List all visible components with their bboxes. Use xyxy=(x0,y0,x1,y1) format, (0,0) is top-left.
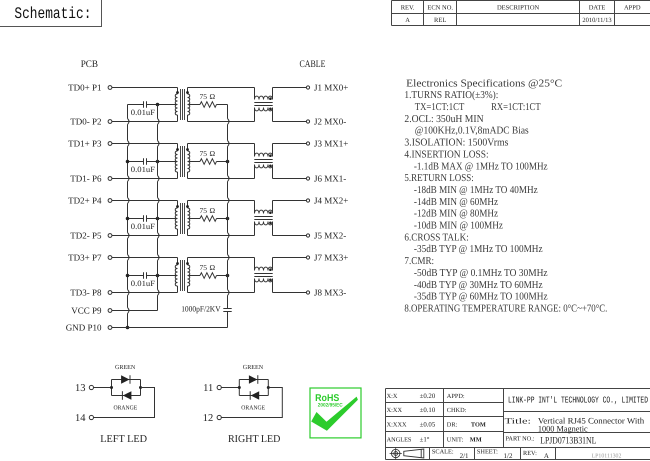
common-mode choke CM4 xyxy=(254,258,272,293)
wire T3 secondary top to choke xyxy=(188,200,255,202)
capacitor C5 1000pF/2KV xyxy=(181,305,232,328)
transformer T4 xyxy=(175,258,190,293)
svg-text:75: 75 xyxy=(200,263,208,272)
pin J3 MX1+ xyxy=(306,139,348,149)
svg-text:APPD: APPD xyxy=(624,5,641,12)
svg-text:REV.: REV. xyxy=(401,5,415,12)
svg-text:DESCRIPTION: DESCRIPTION xyxy=(497,5,540,12)
svg-text:13: 13 xyxy=(75,383,86,394)
svg-text:5.RETURN LOSS:: 5.RETURN LOSS: xyxy=(404,173,473,184)
revision table xyxy=(392,1,650,26)
svg-text:RX=1CT:1CT: RX=1CT:1CT xyxy=(491,102,541,113)
svg-text:LINK-PP INT'L TECHNOLOGY CO.,: LINK-PP INT'L TECHNOLOGY CO., LIMITED xyxy=(508,395,648,405)
pin J5 MX2- xyxy=(306,231,346,241)
node: GND bus / cap junction xyxy=(126,160,130,164)
svg-text:±1°: ±1° xyxy=(420,437,430,444)
wire LED pair to pin 12 xyxy=(221,388,282,418)
pin P2 TD0- xyxy=(70,117,112,127)
wire channel 3 PCB top wire xyxy=(112,257,178,259)
wire choke CM2 to J output top xyxy=(273,143,307,145)
common-mode choke CM3 xyxy=(254,201,272,236)
svg-text:TD2+ P4: TD2+ P4 xyxy=(68,196,102,206)
capacitor C4 0.01uF xyxy=(131,272,156,288)
svg-text:0.01uF: 0.01uF xyxy=(131,222,156,231)
wire R1 to termination rail xyxy=(217,104,228,106)
svg-text:-14dB MIN @ 60MHz: -14dB MIN @ 60MHz xyxy=(414,197,498,208)
wire channel 2 PCB bottom wire xyxy=(112,235,178,237)
svg-text:J3 MX1+: J3 MX1+ xyxy=(314,139,348,149)
electronics specifications text block xyxy=(404,78,607,314)
svg-text:REV:: REV: xyxy=(523,450,537,457)
svg-text:PART NO.:: PART NO.: xyxy=(506,435,535,442)
wire VCC P9 to VCC bus xyxy=(112,310,158,312)
svg-text:7.CMR:: 7.CMR: xyxy=(404,256,434,267)
svg-text:Ω: Ω xyxy=(210,263,216,272)
svg-text:J6 MX1-: J6 MX1- xyxy=(314,174,346,184)
svg-text:75: 75 xyxy=(200,92,208,101)
svg-text:TD0- P2: TD0- P2 xyxy=(70,117,101,127)
transformer T2 xyxy=(175,144,190,179)
wire choke CM3 to J output top xyxy=(273,200,307,202)
svg-text:-50dB TYP @ 0.1MHz TO 30MHz: -50dB TYP @ 0.1MHz TO 30MHz xyxy=(414,268,548,279)
wire pin 11 to LED pair xyxy=(221,387,239,389)
RoHS logo xyxy=(310,388,361,438)
svg-text:2010/11/13: 2010/11/13 xyxy=(582,17,611,24)
wire channel 2 cap to T3 center tap xyxy=(147,218,178,220)
svg-text:Schematic:: Schematic: xyxy=(14,5,91,23)
node: GND bus / cap junction xyxy=(126,217,130,221)
svg-text:TD1+ P3: TD1+ P3 xyxy=(68,139,102,149)
capacitor C2 0.01uF xyxy=(131,158,156,174)
wire channel 0 PCB bottom wire xyxy=(112,121,178,123)
LED green diode (LEFT LED) xyxy=(121,375,130,384)
transformer T1 xyxy=(175,88,190,122)
title block frame xyxy=(386,389,650,460)
wire LED pair to pin 14 xyxy=(94,388,155,418)
pin 13 xyxy=(75,383,94,394)
svg-text:PCB: PCB xyxy=(81,59,99,70)
svg-text:VCC P9: VCC P9 xyxy=(71,306,102,316)
svg-text:-40dB TYP @ 30MHz TO 60MHz: -40dB TYP @ 30MHz TO 60MHz xyxy=(414,280,543,291)
svg-text:1000pF/2KV: 1000pF/2KV xyxy=(181,305,221,314)
svg-text:@100KHz,0.1V,8mADC Bias: @100KHz,0.1V,8mADC Bias xyxy=(415,126,529,137)
svg-text:±0.05: ±0.05 xyxy=(420,421,436,428)
svg-text:-35dB TYP @ 1MHz TO 100MHz: -35dB TYP @ 1MHz TO 100MHz xyxy=(414,244,543,255)
svg-text:LP10111302: LP10111302 xyxy=(592,454,622,460)
wire channel 0 cap to T1 center tap xyxy=(147,104,178,106)
pin J4 MX2+ xyxy=(306,196,348,206)
wire channel 1 PCB top wire xyxy=(112,143,178,145)
pin J7 MX3+ xyxy=(306,253,348,263)
wire pin 13 to LED pair xyxy=(94,387,112,389)
wire channel 1 PCB bottom wire xyxy=(112,178,178,180)
svg-text:MM: MM xyxy=(470,437,482,444)
svg-text:±0.20: ±0.20 xyxy=(420,393,436,400)
svg-text:A: A xyxy=(405,17,410,24)
transformer T3 xyxy=(175,201,190,236)
pin P10 GND xyxy=(66,323,112,333)
svg-text:TD3- P8: TD3- P8 xyxy=(70,288,102,298)
wire R2 to termination rail xyxy=(217,161,228,163)
svg-text:J2 MX0-: J2 MX0- xyxy=(314,117,346,127)
svg-text:0.01uF: 0.01uF xyxy=(131,165,156,174)
pin P1 TD0+ xyxy=(68,83,112,93)
svg-text:75: 75 xyxy=(200,206,208,215)
resistor R4 75 ohm xyxy=(200,263,217,278)
common-mode choke CM2 xyxy=(254,144,272,179)
pin J2 MX0- xyxy=(306,117,346,127)
svg-text:UNIT:: UNIT: xyxy=(447,437,464,444)
svg-text:J8 MX3-: J8 MX3- xyxy=(314,288,346,298)
third angle projection symbol xyxy=(390,447,424,459)
svg-text:11: 11 xyxy=(203,383,213,394)
svg-text:-18dB MIN @ 1MHz TO 40MHz: -18dB MIN @ 1MHz TO 40MHz xyxy=(414,185,538,196)
wire T4 secondary bottom to choke xyxy=(188,292,255,294)
wire VCC bus (vertical, x=157) xyxy=(158,105,160,311)
LED pair frame (LEFT LED) xyxy=(110,380,142,396)
svg-text:2002/95/EC: 2002/95/EC xyxy=(318,403,343,409)
svg-text:DATE: DATE xyxy=(589,5,606,12)
pin 14 xyxy=(75,413,94,424)
pin P3 TD1+ xyxy=(68,139,112,149)
wire choke CM1 to J output top xyxy=(273,87,307,89)
revision table header row xyxy=(401,5,641,12)
capacitor C1 0.01uF xyxy=(131,101,156,117)
svg-text:LEFT LED: LEFT LED xyxy=(100,434,147,445)
svg-text:-12dB MIN @ 80MHz: -12dB MIN @ 80MHz xyxy=(414,209,498,220)
pin P5 TD2- xyxy=(70,231,112,241)
svg-text:X:XX: X:XX xyxy=(387,407,403,414)
svg-text:8.OPERATING TEMPERATURE RANGE:: 8.OPERATING TEMPERATURE RANGE: 0°C~+70°C… xyxy=(404,303,607,314)
svg-text:ANGLES: ANGLES xyxy=(387,437,412,444)
svg-text:Ω: Ω xyxy=(210,149,216,158)
wire channel 3 center-tap (GND bus to cap) xyxy=(128,275,144,277)
svg-text:J5 MX2-: J5 MX2- xyxy=(314,231,346,241)
svg-text:LPJD0713B31NL: LPJD0713B31NL xyxy=(540,436,596,447)
svg-text:ORANGE: ORANGE xyxy=(241,404,265,411)
wire choke CM1 to J output bottom xyxy=(273,121,307,123)
node: GND bus to GND P10 wire xyxy=(126,326,130,330)
common-mode choke CM1 xyxy=(254,88,272,122)
pin P7 TD3+ xyxy=(68,253,112,263)
svg-text:J1 MX0+: J1 MX0+ xyxy=(314,83,348,93)
svg-text:Electronics Specifications @25: Electronics Specifications @25°C xyxy=(406,78,562,89)
svg-text:SCALE:: SCALE: xyxy=(432,449,454,456)
wire T3 secondary bottom to choke xyxy=(188,235,255,237)
svg-text:CHKD:: CHKD: xyxy=(447,407,467,414)
svg-text:0.01uF: 0.01uF xyxy=(131,279,156,288)
svg-text:6.CROSS TALK:: 6.CROSS TALK: xyxy=(404,232,468,243)
wire T4 secondary top to choke xyxy=(188,257,255,259)
LED pair frame (RIGHT LED) xyxy=(238,380,270,396)
svg-text:SHEET:: SHEET: xyxy=(477,449,498,456)
node: T3 center tap / VCC bus junction xyxy=(156,217,160,221)
wire T2 secondary center tap to R2 xyxy=(188,161,201,163)
resistor R2 75 ohm xyxy=(200,149,217,164)
wire T2 secondary top to choke xyxy=(188,143,255,145)
resistor R3 75 ohm xyxy=(200,206,217,221)
Schematic: title box xyxy=(0,0,102,27)
pin 11 xyxy=(203,383,221,394)
pin P8 TD3- xyxy=(70,288,112,298)
svg-text:REL: REL xyxy=(434,17,446,24)
svg-text:X:XXX: X:XXX xyxy=(387,421,407,428)
svg-text:2/1: 2/1 xyxy=(460,452,469,460)
svg-text:TD2- P5: TD2- P5 xyxy=(70,231,102,241)
svg-text:-1.1dB MAX @ 1MHz TO 100MHz: -1.1dB MAX @ 1MHz TO 100MHz xyxy=(414,161,548,172)
pin J1 MX0+ xyxy=(306,83,348,93)
wire T2 secondary bottom to choke xyxy=(188,178,255,180)
pin P9 VCC xyxy=(71,306,112,316)
resistor R1 75 ohm xyxy=(200,92,217,107)
pin J6 MX1- xyxy=(306,174,346,184)
LED orange diode (RIGHT LED) xyxy=(250,391,259,400)
wire T3 secondary center tap to R3 xyxy=(188,218,201,220)
node: T4 center tap / VCC bus junction xyxy=(156,274,160,278)
wire channel 2 PCB top wire xyxy=(112,200,178,202)
svg-text:1000 Magnetic: 1000 Magnetic xyxy=(538,424,588,434)
svg-text:Ω: Ω xyxy=(210,92,216,101)
svg-text:TD3+ P7: TD3+ P7 xyxy=(68,253,102,263)
wire channel 3 cap to T4 center tap xyxy=(147,275,178,277)
wire choke CM4 to J output top xyxy=(273,257,307,259)
wire choke CM3 to J output bottom xyxy=(273,235,307,237)
wire channel 2 center-tap (GND bus to cap) xyxy=(128,218,144,220)
svg-text:4.INSERTION LOSS:: 4.INSERTION LOSS: xyxy=(404,149,488,160)
svg-text:ORANGE: ORANGE xyxy=(114,404,138,411)
svg-text:14: 14 xyxy=(75,413,86,424)
part number xyxy=(506,435,597,446)
capacitor C3 0.01uF xyxy=(131,215,156,231)
svg-text:1.TURNS RATIO(±3%):: 1.TURNS RATIO(±3%): xyxy=(404,90,498,101)
pin J8 MX3- xyxy=(306,288,346,298)
wire GND bus (vertical, x=128) xyxy=(128,105,130,328)
svg-text:1/2: 1/2 xyxy=(504,452,513,460)
svg-text:TX=1CT:1CT: TX=1CT:1CT xyxy=(415,102,465,113)
node: R2 / termination rail junction xyxy=(226,160,230,164)
svg-text:-35dB TYP @ 60MHz TO 100MHz: -35dB TYP @ 60MHz TO 100MHz xyxy=(414,292,548,303)
wire channel 0 center-tap (GND bus to cap) xyxy=(128,104,144,106)
svg-text:GREEN: GREEN xyxy=(243,364,264,371)
svg-text:0.01uF: 0.01uF xyxy=(131,108,156,117)
svg-text:GREEN: GREEN xyxy=(115,364,136,371)
svg-text:GND P10: GND P10 xyxy=(66,323,102,333)
tolerance table text xyxy=(387,393,486,444)
wire T1 secondary center tap to R1 xyxy=(188,104,201,106)
LED orange diode (LEFT LED) xyxy=(122,391,131,400)
svg-text:DR:: DR: xyxy=(447,421,458,428)
wire channel 3 PCB bottom wire xyxy=(112,292,178,294)
node: T1 center tap / VCC bus junction xyxy=(156,103,160,107)
wire choke CM4 to J output bottom xyxy=(273,292,307,294)
wire channel 0 PCB top wire xyxy=(112,87,178,89)
node: R4 / termination rail junction xyxy=(226,274,230,278)
svg-text:RIGHT LED: RIGHT LED xyxy=(228,434,281,445)
wire choke CM2 to J output bottom xyxy=(273,178,307,180)
svg-text:TD1- P6: TD1- P6 xyxy=(70,174,102,184)
pin P6 TD1- xyxy=(70,174,112,184)
wire termination rail (vertical, x=227.5) xyxy=(228,105,230,309)
svg-text:TOM: TOM xyxy=(471,421,486,428)
svg-text:12: 12 xyxy=(203,413,214,424)
pin 12 xyxy=(203,413,221,424)
scale / sheet / rev row text xyxy=(432,449,549,461)
svg-text:2.OCL: 350uH MIN: 2.OCL: 350uH MIN xyxy=(404,114,484,125)
node: T2 center tap / VCC bus junction xyxy=(156,160,160,164)
wire T1 secondary bottom to choke xyxy=(188,121,255,123)
pin P4 TD2+ xyxy=(68,196,112,206)
svg-text:A: A xyxy=(544,452,549,460)
svg-text:75: 75 xyxy=(200,149,208,158)
wire GND P10 to C5 xyxy=(112,327,228,329)
wire R3 to termination rail xyxy=(217,218,228,220)
revision table row A REL 2010/11/13 xyxy=(405,17,611,24)
node: R3 / termination rail junction xyxy=(226,217,230,221)
svg-text:Ω: Ω xyxy=(210,206,216,215)
svg-text:-10dB MIN @ 100MHz: -10dB MIN @ 100MHz xyxy=(414,221,503,232)
svg-text:Title:: Title: xyxy=(505,417,532,426)
svg-text:X:X: X:X xyxy=(387,393,398,400)
LED green diode (RIGHT LED) xyxy=(249,375,258,384)
wire R4 to termination rail xyxy=(217,275,228,277)
wire T4 secondary center tap to R4 xyxy=(188,275,201,277)
svg-text:±0.10: ±0.10 xyxy=(420,407,436,414)
wire channel 1 cap to T2 center tap xyxy=(147,161,178,163)
svg-text:APPD:: APPD: xyxy=(447,393,465,400)
title text xyxy=(505,416,645,434)
svg-text:CABLE: CABLE xyxy=(300,59,326,70)
node: GND bus / cap junction xyxy=(126,274,130,278)
wire T1 secondary top to choke xyxy=(188,87,255,89)
svg-text:J7 MX3+: J7 MX3+ xyxy=(314,253,348,263)
svg-text:ECN NO.: ECN NO. xyxy=(427,5,453,12)
wire channel 1 center-tap (GND bus to cap) xyxy=(128,161,144,163)
svg-text:J4 MX2+: J4 MX2+ xyxy=(314,196,348,206)
svg-text:TD0+ P1: TD0+ P1 xyxy=(68,83,101,93)
svg-text:3.ISOLATION: 1500Vrms: 3.ISOLATION: 1500Vrms xyxy=(404,138,508,149)
